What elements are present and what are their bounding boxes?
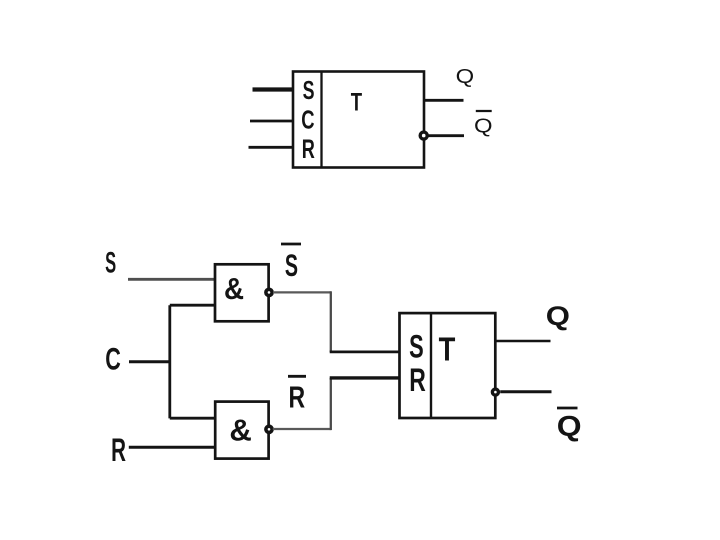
wire Qbar output (U2) [500,390,551,393]
svg-text:T: T [439,331,456,368]
wire vertical bend down to S of U2 [330,291,332,352]
wire G2 output to bend [273,428,331,430]
inversion bubble (G2) [266,426,272,432]
svg-text:S: S [285,247,298,283]
wire R input (U1) [249,146,294,149]
label Rbar (node) [288,376,306,414]
wire S input (U1) [253,87,294,91]
label Qbar (U1 output) [474,111,493,137]
svg-text:Q: Q [456,65,475,88]
wire Qbar output (U1) [428,134,464,137]
wire Q output (U2) [495,340,550,342]
svg-text:T: T [351,88,363,116]
wire S input [128,278,215,281]
wire Q output (U1) [424,99,464,102]
wire into S input of U2 [330,351,400,354]
wire C trunk vertical [168,305,171,418]
svg-text:S: S [409,328,424,364]
svg-text:&: & [229,413,251,448]
label Qbar (U2 output) [557,408,582,443]
wire G1 output to bend [273,291,331,293]
svg-text:&: & [224,273,244,306]
svg-text:Q: Q [557,410,582,442]
svg-text:C: C [105,341,121,376]
T flip-flop U1 (top symbol) box [293,72,424,168]
inversion bubble (G1) [266,289,272,295]
AND gate G1 (top) [215,264,269,321]
inversion bubble (U2 Qbar) [492,389,498,395]
wire C branch to G1 [170,304,215,307]
AND gate G2 (bottom) [215,402,268,459]
label Sbar (node) [281,244,301,283]
svg-text:C: C [301,106,314,135]
wire vertical bend up to R of U2 [330,378,332,430]
svg-text:S: S [303,76,315,105]
wire C input [129,360,170,363]
SR flip-flop U2 box [400,313,496,418]
wire into R input of U2 [330,376,400,379]
svg-text:R: R [111,432,126,468]
svg-text:R: R [302,133,316,163]
wire C branch to G2 [170,417,215,420]
inversion bubble (U1 Qbar) [420,132,427,139]
svg-text:R: R [409,361,426,398]
svg-text:S: S [105,247,116,280]
svg-text:R: R [288,379,305,414]
svg-text:Q: Q [546,302,570,332]
wire R input [129,446,215,449]
wire C input (U1) [250,120,293,123]
svg-text:Q: Q [474,114,493,137]
